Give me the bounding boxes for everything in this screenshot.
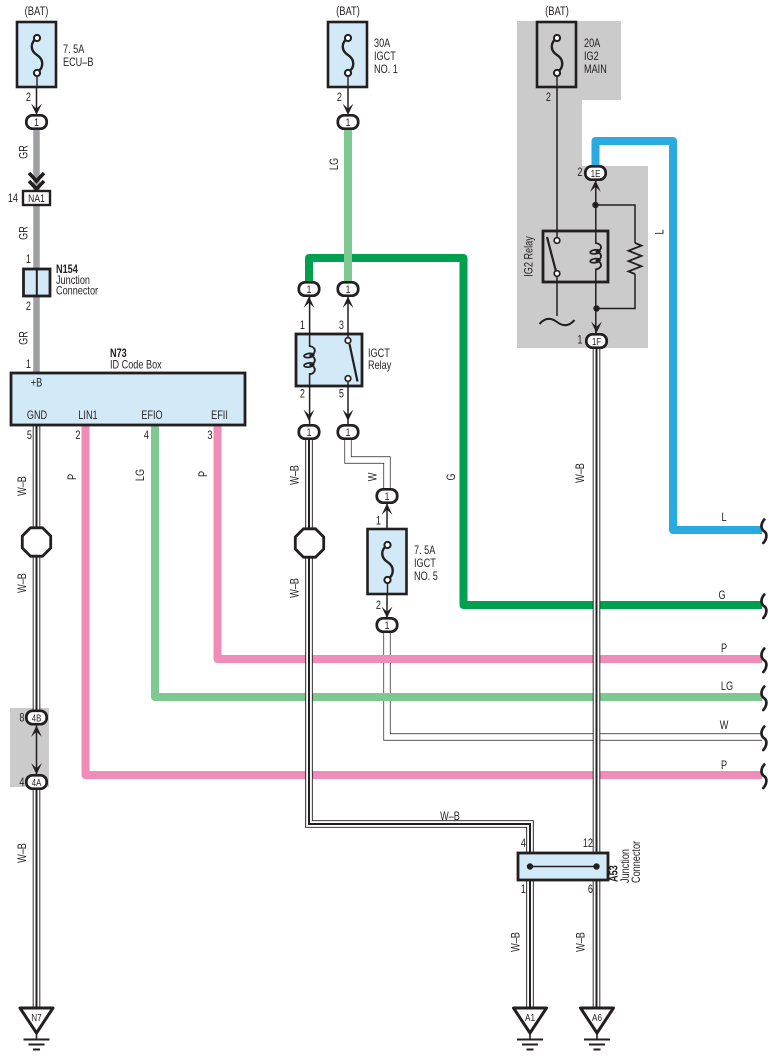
svg-text:W–B: W–B	[17, 573, 29, 593]
wire P from EFII to right edge	[218, 426, 763, 659]
svg-text:Relay: Relay	[368, 360, 392, 372]
svg-text:1: 1	[346, 117, 351, 129]
svg-text:LIN1: LIN1	[78, 410, 97, 422]
svg-text:W: W	[720, 720, 729, 732]
svg-text:3: 3	[339, 320, 344, 332]
gray panel behind 4B-4A connectors	[10, 708, 49, 787]
svg-text:W–B: W–B	[575, 463, 587, 483]
lead IGCT relay pin 5	[347, 381, 349, 432]
arrow into connector 4A	[31, 763, 42, 774]
break symbol wire P upper	[761, 649, 766, 673]
connector 1 below ECU-B fuse	[26, 115, 46, 128]
svg-text:1E: 1E	[591, 168, 601, 179]
break symbol wire L	[761, 520, 766, 544]
svg-text:4: 4	[19, 777, 24, 789]
lead 1E to IG2 relay coil	[595, 178, 597, 244]
wire W-B from GND pin 5 down to 4B	[33, 426, 41, 711]
svg-text:GND: GND	[27, 410, 48, 422]
svg-text:NA1: NA1	[28, 193, 45, 205]
arrow into connector above IGCT NO.5 fuse	[382, 504, 393, 515]
svg-text:2: 2	[300, 389, 305, 401]
arrow into connector above IGCT relay pin 3	[343, 297, 354, 308]
arrow into connector below IGCT NO.5 fuse	[382, 607, 393, 618]
svg-text:W–B: W–B	[511, 932, 523, 952]
switch of IG2 relay	[554, 238, 560, 244]
lead fuse IG2 MAIN pin 2 to IG2 relay switch	[556, 87, 558, 238]
octagon splice on middle W-B wire	[295, 529, 323, 557]
lead between 4B and 4A	[36, 722, 38, 778]
svg-text:LG: LG	[135, 469, 147, 481]
svg-text:ID Code Box: ID Code Box	[110, 360, 162, 372]
wire W from fuse IGCT NO.5 pin 2 to right edge	[387, 630, 762, 737]
lead to resistor bottom	[597, 274, 636, 309]
svg-text:20A: 20A	[584, 38, 600, 50]
wire P from LIN1 to right edge	[86, 426, 763, 775]
arrow into connector 1F	[591, 322, 602, 333]
connector 1 below IGCT relay pin 5	[338, 425, 358, 438]
lead IG2 relay coil to 1F	[595, 269, 597, 337]
svg-text:IGCT: IGCT	[368, 348, 390, 360]
lead to resistor top	[596, 205, 636, 243]
svg-text:W–B: W–B	[290, 465, 302, 485]
svg-text:3: 3	[207, 430, 212, 442]
lead fuse IGCT NO.5 bottom	[386, 594, 388, 620]
svg-text:Connector: Connector	[631, 840, 643, 883]
svg-text:N7: N7	[31, 1011, 41, 1023]
svg-text:MAIN: MAIN	[584, 64, 607, 76]
svg-text:Connector: Connector	[56, 286, 99, 298]
svg-text:7. 5A: 7. 5A	[414, 545, 435, 557]
wire L blue from 1E to right edge	[596, 141, 763, 530]
svg-text:1: 1	[26, 359, 31, 371]
ground A1	[514, 1008, 547, 1033]
svg-text:P: P	[67, 474, 79, 480]
arrow into connector above IGCT relay pin 1	[304, 297, 315, 308]
svg-text:IG2 Relay: IG2 Relay	[524, 236, 536, 277]
connector 1E	[585, 166, 605, 179]
svg-text:2: 2	[75, 430, 80, 442]
double chevron on GR wire	[29, 173, 44, 181]
connector 1 below IGCT NO.5 fuse	[377, 618, 397, 631]
arrow into connector below IGCT relay pin 5	[343, 410, 354, 421]
svg-text:1: 1	[376, 516, 381, 528]
svg-text:1F: 1F	[592, 336, 602, 347]
svg-text:NO. 1: NO. 1	[374, 64, 398, 76]
svg-text:W–B: W–B	[440, 811, 460, 823]
svg-text:IGCT: IGCT	[414, 558, 436, 570]
svg-text:W–B: W–B	[17, 476, 29, 496]
svg-text:4A: 4A	[32, 777, 42, 788]
lead IGCT relay pin 2	[309, 373, 311, 432]
wire LG from EFIO to right edge	[155, 426, 762, 697]
svg-text:P: P	[198, 471, 210, 477]
resistor of IG2 relay	[629, 243, 642, 274]
arrow into connector 1E	[590, 181, 601, 192]
svg-text:1: 1	[307, 284, 312, 296]
svg-text:2: 2	[26, 301, 31, 313]
svg-text:1: 1	[577, 335, 582, 347]
svg-text:IG2: IG2	[584, 51, 599, 63]
coil of IG2 relay	[596, 243, 601, 269]
ID code box N73	[11, 373, 245, 425]
junction dot above IG2 relay	[592, 202, 598, 208]
svg-text:1: 1	[385, 491, 390, 503]
svg-text:EFIO: EFIO	[141, 410, 162, 422]
svg-text:1: 1	[346, 427, 351, 439]
break symbol wire P lower	[761, 765, 766, 789]
junction connector N154	[24, 269, 51, 296]
svg-text:G: G	[718, 590, 725, 602]
relay IGCT box	[296, 334, 362, 386]
svg-text:1: 1	[346, 284, 351, 296]
svg-text:P: P	[721, 760, 727, 772]
connector 1 above IGCT relay pin 1	[299, 282, 319, 295]
relay IG2 box	[543, 231, 608, 282]
svg-text:G: G	[446, 473, 458, 480]
wire W-B from IGCT relay pin 2 to A53 pin 4 and ground A1	[309, 437, 530, 1009]
junction dot below IG2 relay	[593, 305, 599, 311]
connector 1F	[586, 334, 606, 347]
svg-text:1: 1	[34, 117, 39, 129]
connector 1 above IGCT relay pin 3	[338, 282, 358, 295]
arrow into connector 4B	[31, 726, 42, 737]
svg-text:2: 2	[337, 92, 342, 104]
fuse 7.5A IGCT NO.5	[368, 529, 407, 594]
svg-text:L: L	[721, 512, 726, 524]
svg-text:2: 2	[577, 167, 582, 179]
coil of IGCT relay	[310, 346, 315, 375]
connector 4A	[26, 775, 46, 788]
svg-text:EFII: EFII	[211, 410, 228, 422]
wire W-B from 4A down to ground N7	[33, 788, 41, 1009]
svg-text:8: 8	[19, 713, 24, 725]
node NA1	[23, 191, 50, 205]
switch of IGCT relay	[345, 338, 351, 344]
arrow into connector below IGCT relay pin 2	[304, 410, 315, 421]
svg-text:GR: GR	[19, 226, 31, 240]
svg-text:(BAT): (BAT)	[336, 5, 360, 18]
fuse 7.5A ECU-B	[17, 22, 56, 87]
lead fuse ECU-B pin 2 to arrow	[36, 87, 38, 110]
fuse 30A IGCT NO.1	[328, 22, 367, 87]
arrow into connector below ECU-B fuse	[31, 104, 42, 115]
gray panel behind IG2 circuit	[517, 21, 648, 348]
svg-text:6: 6	[588, 884, 593, 896]
svg-text:LG: LG	[721, 681, 733, 693]
break symbol wire LG	[761, 687, 766, 711]
ground N7	[20, 1008, 53, 1033]
svg-text:1: 1	[307, 427, 312, 439]
ground A6	[581, 1008, 614, 1033]
svg-text:1: 1	[300, 320, 305, 332]
svg-text:5: 5	[339, 389, 344, 401]
svg-text:1: 1	[385, 620, 390, 632]
svg-text:7. 5A: 7. 5A	[63, 44, 84, 56]
wire W-B from 1F to A53 pin 12 and ground A6	[593, 348, 601, 1009]
svg-text:GR: GR	[19, 331, 31, 345]
svg-text:ECU–B: ECU–B	[63, 57, 93, 69]
svg-text:1: 1	[26, 254, 31, 266]
lead IGCT relay pin 1	[309, 295, 311, 347]
wire W from IGCT relay pin 5 to fuse IGCT NO.5	[348, 437, 387, 490]
svg-text:(BAT): (BAT)	[545, 5, 569, 18]
svg-text:4: 4	[144, 430, 149, 442]
connector 1 above IGCT NO.5 fuse	[377, 489, 397, 502]
svg-text:1: 1	[521, 884, 526, 896]
svg-text:P: P	[721, 643, 727, 655]
lead fuse IGCT NO.1 pin 2 to arrow	[347, 87, 349, 110]
junction connector A53	[518, 853, 608, 880]
wire G dark green from relay ellipse to right edge	[309, 258, 762, 605]
svg-text:L: L	[655, 229, 667, 234]
svg-text:2: 2	[546, 92, 551, 104]
svg-text:IGCT: IGCT	[374, 51, 396, 63]
break symbol wire G	[761, 595, 766, 619]
fuse 20A IG2 MAIN	[537, 22, 576, 87]
svg-text:W–B: W–B	[290, 578, 302, 598]
svg-text:2: 2	[376, 600, 381, 612]
connector 4B	[26, 711, 46, 724]
connector 1 below IGCT NO.1 fuse	[338, 115, 358, 128]
svg-text:W–B: W–B	[576, 932, 588, 952]
svg-text:A6: A6	[592, 1011, 602, 1023]
lead IG2 relay switch to squiggle	[556, 276, 558, 316]
svg-text:A1: A1	[525, 1011, 535, 1023]
arrow into connector below IGCT NO.1 fuse	[343, 104, 354, 115]
wire LG from fuse IGCT NO.1 down	[344, 128, 352, 284]
svg-text:12: 12	[583, 838, 593, 850]
svg-text:5: 5	[27, 430, 32, 442]
lead IGCT relay pin 3	[347, 295, 349, 338]
svg-text:GR: GR	[19, 145, 31, 159]
svg-text:W–B: W–B	[17, 843, 29, 863]
svg-text:14: 14	[8, 193, 18, 205]
squiggle below IG2 relay switch	[540, 319, 575, 325]
svg-text:W: W	[368, 473, 380, 482]
svg-text:LG: LG	[329, 158, 341, 170]
break symbol wire W	[761, 727, 766, 751]
svg-text:30A: 30A	[374, 38, 390, 50]
wire GR from ECU-B fuse to ID code box	[33, 128, 40, 374]
connector 1 below IGCT relay pin 2	[299, 425, 319, 438]
svg-text:4B: 4B	[32, 713, 42, 724]
svg-text:NO. 5: NO. 5	[414, 571, 438, 583]
svg-text:N73: N73	[110, 348, 127, 360]
lead fuse IGCT NO.5 top	[386, 500, 388, 529]
svg-text:(BAT): (BAT)	[25, 5, 49, 18]
svg-text:2: 2	[26, 92, 31, 104]
octagon splice on left W-B wire	[22, 528, 50, 556]
svg-text:+B: +B	[31, 378, 42, 390]
svg-text:4: 4	[521, 838, 526, 850]
svg-text:A53: A53	[609, 865, 621, 882]
